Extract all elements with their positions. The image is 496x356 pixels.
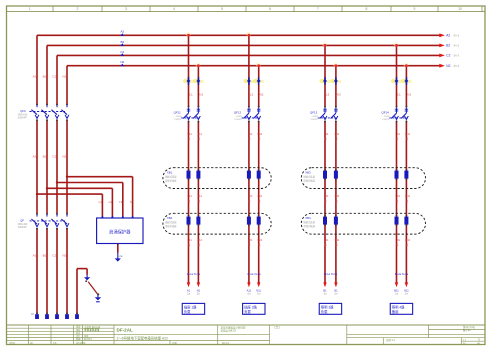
svg-text:N3: N3 [337,92,341,96]
load box branch 1 插座 1路 [182,303,204,314]
arrow branch 3 neutral outgoing [334,282,337,287]
svg-text:（六）: （六） [273,325,282,330]
svg-text:BV-6: BV-6 [454,54,460,58]
connector XB3b pin 1 [323,215,327,226]
svg-text:6: 6 [269,7,271,11]
svg-text:N11: N11 [197,132,202,136]
arrow branch 2 neutral outgoing [257,282,260,287]
terminal X0:2 [45,312,49,319]
connector XB1b pin 2 [196,215,200,226]
net label C3 below QF00 [52,253,56,257]
load box branch 4 照明 4路 [390,303,412,314]
arrow branch 4 neutral outgoing [405,282,408,287]
svg-text:李某某某某某: 李某某某某某 [83,328,100,332]
svg-text:C2: C2 [120,50,124,54]
svg-text:L11: L11 [188,132,193,136]
svg-text:B1: B1 [43,74,47,78]
net label N2 below QF0 [62,154,66,158]
wire branch 1 neutral [195,63,200,283]
connector XB4b pin 2 [404,215,408,226]
net label N31b below connector rows [335,238,340,247]
arrow branch 1 neutral outgoing [197,282,200,287]
svg-text:L21: L21 [248,132,253,136]
svg-text:N3: N3 [62,253,66,257]
pin 1 SPD [101,215,104,218]
svg-text:N11: N11 [197,238,202,242]
net label B1 at arrow [323,288,327,295]
svg-text:N41: N41 [405,238,410,242]
svg-text:负载: 负载 [321,309,328,314]
circuit breaker QF14 2-pole [389,106,408,123]
svg-text:1～6号楼地下室配电箱系统图 A22: 1～6号楼地下室配电箱系统图 A22 [117,335,169,340]
svg-text:N2: N2 [260,92,264,96]
svg-text:4: 4 [173,7,175,11]
wire riser phase 4 between QF2 and terminal [66,229,68,313]
wire bus B2 (horizontal distribution bus 2) [47,45,440,104]
svg-text:XB1: XB1 [167,171,173,175]
marker measuring point branch 2 at x=258.7 [253,77,264,84]
svg-text:B2: B2 [120,40,124,44]
net label BL1a XL1a cable [324,272,338,276]
wire branch 3 phase [322,42,327,282]
svg-text:C65N: C65N [236,116,242,118]
net label N2 [446,64,459,68]
marker measuring point branch 3 at x=325.0 [319,77,330,84]
net label BL2a XL2a cable [395,272,409,276]
wire PE riser [77,269,87,314]
connector XB2a pin 1 [247,169,251,180]
net label L1 at SPD input [99,200,103,204]
connector PE link arrow [84,275,90,283]
net label B11 at arrow [394,288,399,295]
svg-text:L41: L41 [395,238,400,242]
svg-text:L41: L41 [395,132,400,136]
svg-text:C1: C1 [52,74,56,78]
wire bus C2 (horizontal distribution bus 3) [57,55,440,104]
arrow branch 1 phase outgoing [187,282,190,287]
svg-text:C65N: C65N [176,116,182,118]
net label N1 at arrow [334,288,338,295]
wire SPD tap from riser 4 [66,176,133,218]
wire SPD tap from riser 2 [46,187,113,217]
wire branch 1 phase [185,32,190,283]
svg-text:N: N [32,312,34,316]
svg-text:N1: N1 [199,92,203,96]
label QF12 [234,111,242,121]
connector enclosure XB2 (dashed) [163,213,271,234]
svg-text:N1: N1 [197,288,201,292]
svg-text:A11: A11 [247,288,252,292]
net label L31 below breaker [324,132,329,141]
svg-text:L11: L11 [188,238,193,242]
net label L1 [189,92,193,96]
svg-text:C16/2P: C16/2P [234,119,242,121]
svg-text:NM1-400: NM1-400 [18,224,28,226]
svg-text:B2: B2 [43,154,47,158]
bus marker C2 at riser junction [120,50,124,56]
svg-text:XB4: XB4 [305,216,311,220]
svg-text:400A/4P: 400A/4P [18,226,27,229]
marker measuring point branch 1 at x=188.5 [183,77,194,84]
svg-text:L31: L31 [324,238,329,242]
wire branch 2 neutral [256,63,261,283]
bus marker A2 at riser junction [120,30,124,36]
net label L31a between connector rows [324,194,329,203]
net label N21a between connector rows [257,194,262,203]
svg-text:B2: B2 [446,44,450,48]
svg-text:照明 3路: 照明 3路 [321,304,334,309]
svg-text:L31: L31 [324,132,329,136]
svg-text:某某设计所 02: 某某设计所 02 [221,328,237,332]
wire SPD tap from riser 1 [36,193,103,218]
svg-text:BL1a XL1a: BL1a XL1a [324,272,338,276]
net label N1 [199,92,203,96]
net label C2 [446,54,459,58]
wire SPD tap from riser 3 [56,181,123,217]
net label PE at SPD [120,256,123,258]
svg-text:L2: L2 [250,92,254,96]
marker measuring point branch 2 at x=248.9 [243,77,254,84]
arrow branch 3 phase outgoing [323,282,326,287]
svg-text:BV-6: BV-6 [454,34,460,38]
net label N41a between connector rows [405,194,410,203]
net label N41 below breaker [405,132,410,141]
net label A3 below QF00 [33,253,37,257]
svg-text:N31: N31 [335,238,340,242]
svg-text:工程号: 工程号 [8,341,16,345]
pin 4 SPD [131,215,134,218]
arrow bus B2 outgoing [439,44,445,48]
svg-text:QF0: QF0 [20,109,26,113]
net label B1 above QF0 [43,74,47,78]
wire riser phase 3 between QF1 and QF2 [56,121,58,213]
marker measuring point branch 4 at x=406.4 [401,77,412,84]
net label L11 below breaker [188,132,193,141]
net label A11 at arrow [247,288,252,295]
net label L3 [326,92,330,96]
svg-text:照明 4路: 照明 4路 [392,304,405,309]
svg-text:N2: N2 [446,64,450,68]
svg-text:1: 1 [29,7,31,11]
net label N1 above QF0 [62,74,66,78]
svg-text:10: 10 [458,7,462,11]
terminal X0:3 [55,312,59,319]
wire bus N2 (horizontal distribution bus 4) [67,66,440,105]
connector XB4a pin 1 [395,169,399,180]
net label L41 below breaker [395,132,400,141]
svg-text:L3: L3 [119,200,123,204]
net label N3 below QF00 [62,253,66,257]
svg-text:5: 5 [221,7,223,11]
net label L21a between connector rows [248,194,253,203]
svg-text:插座 2路: 插座 2路 [244,304,257,309]
svg-text:02.03.04: 02.03.04 [76,342,86,345]
svg-text:C16/2P: C16/2P [382,119,390,121]
svg-text:3: 3 [125,7,127,11]
pin 2 SPD [111,215,114,218]
svg-text:N2: N2 [62,154,66,158]
wire SPD earth stub [117,243,119,252]
svg-text:XB3: XB3 [305,171,311,175]
circuit breaker QF0 main 4-pole [30,104,69,122]
net label AL1a XL1a cable [187,272,201,276]
svg-text:BV-6: BV-6 [454,44,460,48]
svg-text:日期: 日期 [172,341,177,345]
surge protector SPD box 浪涌保护器 [97,218,143,244]
net label N11 at arrow [256,288,261,295]
net label N31a between connector rows [335,194,340,203]
svg-text:C65N: C65N [312,116,318,118]
circuit breaker QF13 2-pole [318,106,338,123]
svg-text:A1: A1 [187,288,191,292]
svg-text:A1: A1 [33,74,37,78]
circuit breaker QF00 lower 4-pole [30,213,69,230]
svg-text:A2: A2 [120,30,124,34]
terminal X0:5 [75,312,79,319]
net label L3 at SPD input [119,200,123,204]
svg-text:A3: A3 [33,253,37,257]
arrow bus C2 outgoing [439,54,445,58]
svg-text:8: 8 [366,7,368,11]
svg-text:L1: L1 [397,92,401,96]
marker measuring point branch 1 at x=198.4 [193,77,204,84]
connector enclosure XB4 (dashed) [301,213,425,234]
svg-text:B3: B3 [43,253,47,257]
marker measuring point branch 4 at x=396.5 [391,77,402,84]
ground earth arrow below SPD [115,253,121,262]
net label N31 below breaker [335,132,340,141]
svg-text:N1: N1 [407,92,411,96]
svg-text:L3: L3 [326,92,330,96]
svg-text:L11: L11 [188,194,193,198]
connector XB3b pin 2 [334,215,338,226]
connector enclosure XB1 (dashed) [163,168,271,189]
svg-text:QF13: QF13 [310,111,318,115]
svg-text:C65N: C65N [384,116,390,118]
arrow bus N2 outgoing [439,64,445,68]
svg-text:L1: L1 [189,92,193,96]
wire riser phase 2 between QF1 and QF2 [46,121,48,213]
net label A2 below QF0 [33,154,37,158]
wire branch 3 neutral [333,63,338,283]
net label A1 at arrow [187,288,191,295]
svg-text:N21: N21 [257,132,262,136]
load box branch 3 照明 3路 [319,303,341,314]
svg-text:N1: N1 [334,288,338,292]
net label N11 at arrow [404,288,409,295]
label QF14 [381,111,389,121]
connector XB4b pin 1 [395,215,399,226]
net label L2 [250,92,254,96]
svg-text:N: N [130,200,132,204]
svg-text:630A/4P: 630A/4P [18,116,27,119]
svg-text:DF-2AL: DF-2AL [117,328,134,333]
net label L2 at SPD input [109,200,113,204]
svg-text:N2: N2 [120,60,124,64]
svg-text:N31: N31 [335,132,340,136]
connector XB1a pin 2 [196,169,200,180]
svg-text:XB2: XB2 [167,216,173,220]
svg-text:N21: N21 [257,194,262,198]
svg-text:QF14: QF14 [381,111,389,115]
svg-text:比例 1:1: 比例 1:1 [386,338,395,342]
svg-text:N41: N41 [405,132,410,136]
net label L21 below breaker [248,132,253,141]
connector enclosure XB3 (dashed) [301,168,425,189]
svg-text:N11: N11 [404,288,409,292]
label QF0 [18,109,28,120]
svg-text:N11: N11 [256,288,261,292]
net label C2 below QF0 [52,154,56,158]
terminal X0:1 [35,312,39,319]
arrow bus A2 outgoing [439,33,445,37]
svg-text:N21: N21 [257,238,262,242]
svg-text:B1: B1 [323,288,327,292]
connector XB2b pin 2 [257,215,261,226]
net label L21b below connector rows [248,238,253,247]
svg-text:插座 1路: 插座 1路 [184,304,197,309]
svg-text:NM1-630: NM1-630 [18,115,28,117]
svg-text:L2: L2 [109,200,113,204]
net label N3 [337,92,341,96]
net label N11 below breaker [197,132,202,141]
svg-text:9: 9 [414,7,416,11]
wire riser phase 1 between QF2 and terminal [36,229,38,313]
svg-text:2: 2 [77,7,79,11]
terminal X0:4 [65,312,69,319]
connector XB3a pin 1 [323,169,327,180]
svg-text:C16/2P: C16/2P [174,119,182,121]
net label N at terminals [32,312,34,316]
wire PE earth blade [88,282,99,296]
wire branch 2 phase [246,32,251,283]
svg-text:负载: 负载 [244,309,251,314]
svg-text:AL1a XL1a: AL1a XL1a [187,272,201,276]
net label A1 above QF0 [33,74,37,78]
svg-text:QF12: QF12 [234,111,242,115]
net label B3 below QF00 [43,253,47,257]
net label N1 [407,92,411,96]
load box branch 2 插座 2路 [243,303,265,314]
connector XB2a pin 2 [257,169,261,180]
svg-text:C2: C2 [52,154,56,158]
label QF11 [174,111,182,121]
circuit breaker QF12 2-pole [242,106,261,123]
net label N41b below connector rows [405,238,410,247]
label QF00 [18,218,28,229]
net label L11b below connector rows [188,238,193,247]
net label L11a between connector rows [188,194,193,203]
svg-text:BL2a XL2a: BL2a XL2a [395,272,409,276]
connector XB1a pin 1 [187,169,191,180]
svg-text:C3: C3 [52,253,56,257]
net label AL2a XL2a cable [247,272,261,276]
svg-text:N31: N31 [335,194,340,198]
svg-text:备用: 备用 [392,309,399,314]
svg-text:L1: L1 [99,200,103,204]
net label N11b below connector rows [197,238,202,247]
net label L31b below connector rows [324,238,329,247]
net label B2 [446,44,459,48]
arrow branch 2 phase outgoing [247,282,250,287]
svg-text:A2: A2 [33,154,37,158]
svg-text:AL2a XL2a: AL2a XL2a [247,272,261,276]
svg-text:B11: B11 [394,288,399,292]
wire riser phase 1 between QF1 and QF2 [36,121,38,213]
net label N21 below breaker [257,132,262,141]
svg-text:浪涌保护器: 浪涌保护器 [109,228,131,235]
svg-text:QF11: QF11 [174,111,181,115]
svg-text:N1: N1 [62,74,66,78]
svg-text:N41: N41 [405,194,410,198]
svg-text:C2: C2 [446,54,450,58]
wire riser phase 2 between QF2 and terminal [46,229,48,313]
net label L41b below connector rows [395,238,400,247]
svg-text:QF: QF [20,218,24,222]
net label A2 [446,34,459,38]
connector XB4a pin 2 [404,169,408,180]
net label L41a between connector rows [395,194,400,203]
wire branch 4 phase [393,42,398,282]
connector XB3a pin 2 [334,169,338,180]
svg-text:C16/2P: C16/2P [311,119,319,121]
arrow branch 4 phase outgoing [395,282,398,287]
ground earth symbol PE [95,295,101,302]
svg-text:L21: L21 [248,194,253,198]
bus marker B2 at riser junction [120,40,124,46]
svg-text:A2: A2 [446,34,450,38]
label QF13 [310,111,318,121]
svg-text:L21: L21 [248,238,253,242]
net label N1 at arrow [197,288,201,295]
connector XB1b pin 1 [187,215,191,226]
pin 3 SPD [121,215,124,218]
svg-text:L31: L31 [324,194,329,198]
svg-text:02.3.4: 02.3.4 [222,342,229,345]
svg-text:7: 7 [317,7,319,11]
net label N21b below connector rows [257,238,262,247]
net label N11a between connector rows [197,194,202,203]
wire riser phase 3 between QF2 and terminal [56,229,58,313]
connector XB2b pin 1 [247,215,251,226]
wire branch 4 neutral [403,63,408,283]
wire riser phase 4 between QF1 and QF2 [66,121,68,213]
net label B2 below QF0 [43,154,47,158]
svg-text:BV-6: BV-6 [454,64,460,68]
svg-text:L41: L41 [395,194,400,198]
svg-text:02.03.4: 02.03.4 [84,339,92,341]
wire bus A2 (horizontal distribution bus 1) [37,35,440,104]
net label L1 [397,92,401,96]
net label N2 [260,92,264,96]
svg-text:负载: 负载 [184,309,191,314]
bus marker N2 at riser junction [120,60,124,66]
marker measuring point branch 3 at x=335.9 [330,77,341,84]
circuit breaker QF11 2-pole [181,106,200,123]
net label N at SPD input [130,200,132,204]
net label C1 above QF0 [52,74,56,78]
svg-text:N11: N11 [197,194,202,198]
